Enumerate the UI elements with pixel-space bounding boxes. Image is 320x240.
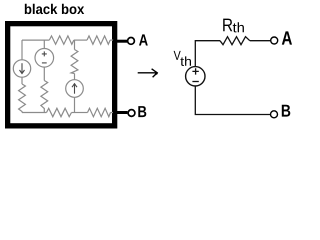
wire top to wall (110, 39, 113, 41)
arrow (138, 72, 155, 74)
wire Rth to A (250, 40, 271, 42)
resistor left branch (19, 84, 26, 113)
terminal B right (271, 111, 278, 118)
label A right (282, 31, 292, 44)
black box label (25, 4, 84, 14)
wire below I2 (74, 97, 76, 112)
resistor bottom-left (47, 108, 72, 116)
label Rth (223, 19, 232, 32)
terminal B (128, 110, 135, 117)
label B left (138, 106, 146, 117)
terminal A (128, 38, 135, 45)
resistor top-left (49, 36, 74, 44)
resistor Rth (220, 37, 250, 45)
voltage source Vth (186, 67, 205, 86)
black box enclosure (8, 24, 115, 126)
wire left branch drop (21, 40, 23, 60)
voltage source V1 (35, 49, 54, 68)
wire top bus (22, 39, 49, 41)
resistor branch2 (41, 81, 48, 113)
label B right (282, 105, 291, 117)
wire top mid (74, 39, 87, 41)
wire bottom bus (22, 112, 47, 114)
wire bottom to wall (111, 112, 114, 114)
resistor branch3 (71, 50, 78, 74)
wire Vth bottom (195, 86, 270, 115)
wire branch3 drop (74, 40, 76, 49)
terminal stub A (113, 40, 127, 43)
wire bottom mid (72, 112, 88, 114)
label A left (139, 34, 148, 45)
current source I2 (66, 80, 84, 98)
terminal stub B (113, 111, 127, 114)
wire branch2 drop (43, 40, 45, 48)
resistor bottom-right (88, 108, 111, 116)
resistor top-right (87, 36, 110, 44)
terminal A right (271, 37, 278, 44)
label Vth (174, 51, 181, 60)
current source I1 (13, 60, 30, 77)
wire below V1 (43, 67, 45, 80)
wire Vth top (195, 41, 220, 67)
wire to I2 (74, 74, 76, 80)
wire below I1 (21, 77, 23, 84)
